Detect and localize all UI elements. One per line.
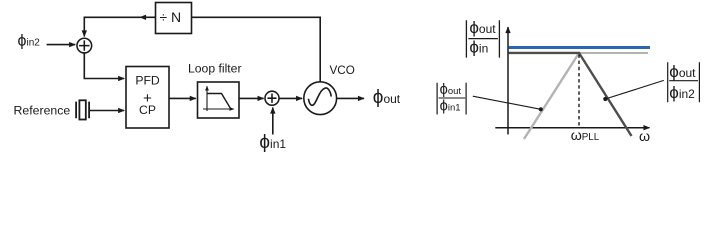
svg-text:ϕin1: ϕin1 [440,99,461,115]
svg-text:ϕout: ϕout [669,62,696,81]
svg-text:ω: ω [639,129,650,145]
svg-text:ϕin1: ϕin1 [259,132,286,153]
svg-text:ϕout: ϕout [373,87,401,108]
svg-text:ϕin2: ϕin2 [669,83,695,102]
svg-text:PFD: PFD [135,74,160,88]
svg-text:÷ N: ÷ N [159,9,181,25]
svg-text:Loop filter: Loop filter [188,61,242,75]
svg-text:ϕout: ϕout [440,82,462,98]
svg-text:ωPLL: ωPLL [571,128,600,144]
svg-text:ϕout: ϕout [469,18,496,37]
svg-text:VCO: VCO [330,64,355,77]
svg-text:ϕin2: ϕin2 [18,33,41,50]
svg-text:ϕin: ϕin [469,38,488,57]
svg-text:Reference: Reference [14,104,71,118]
svg-text:CP: CP [139,103,156,117]
